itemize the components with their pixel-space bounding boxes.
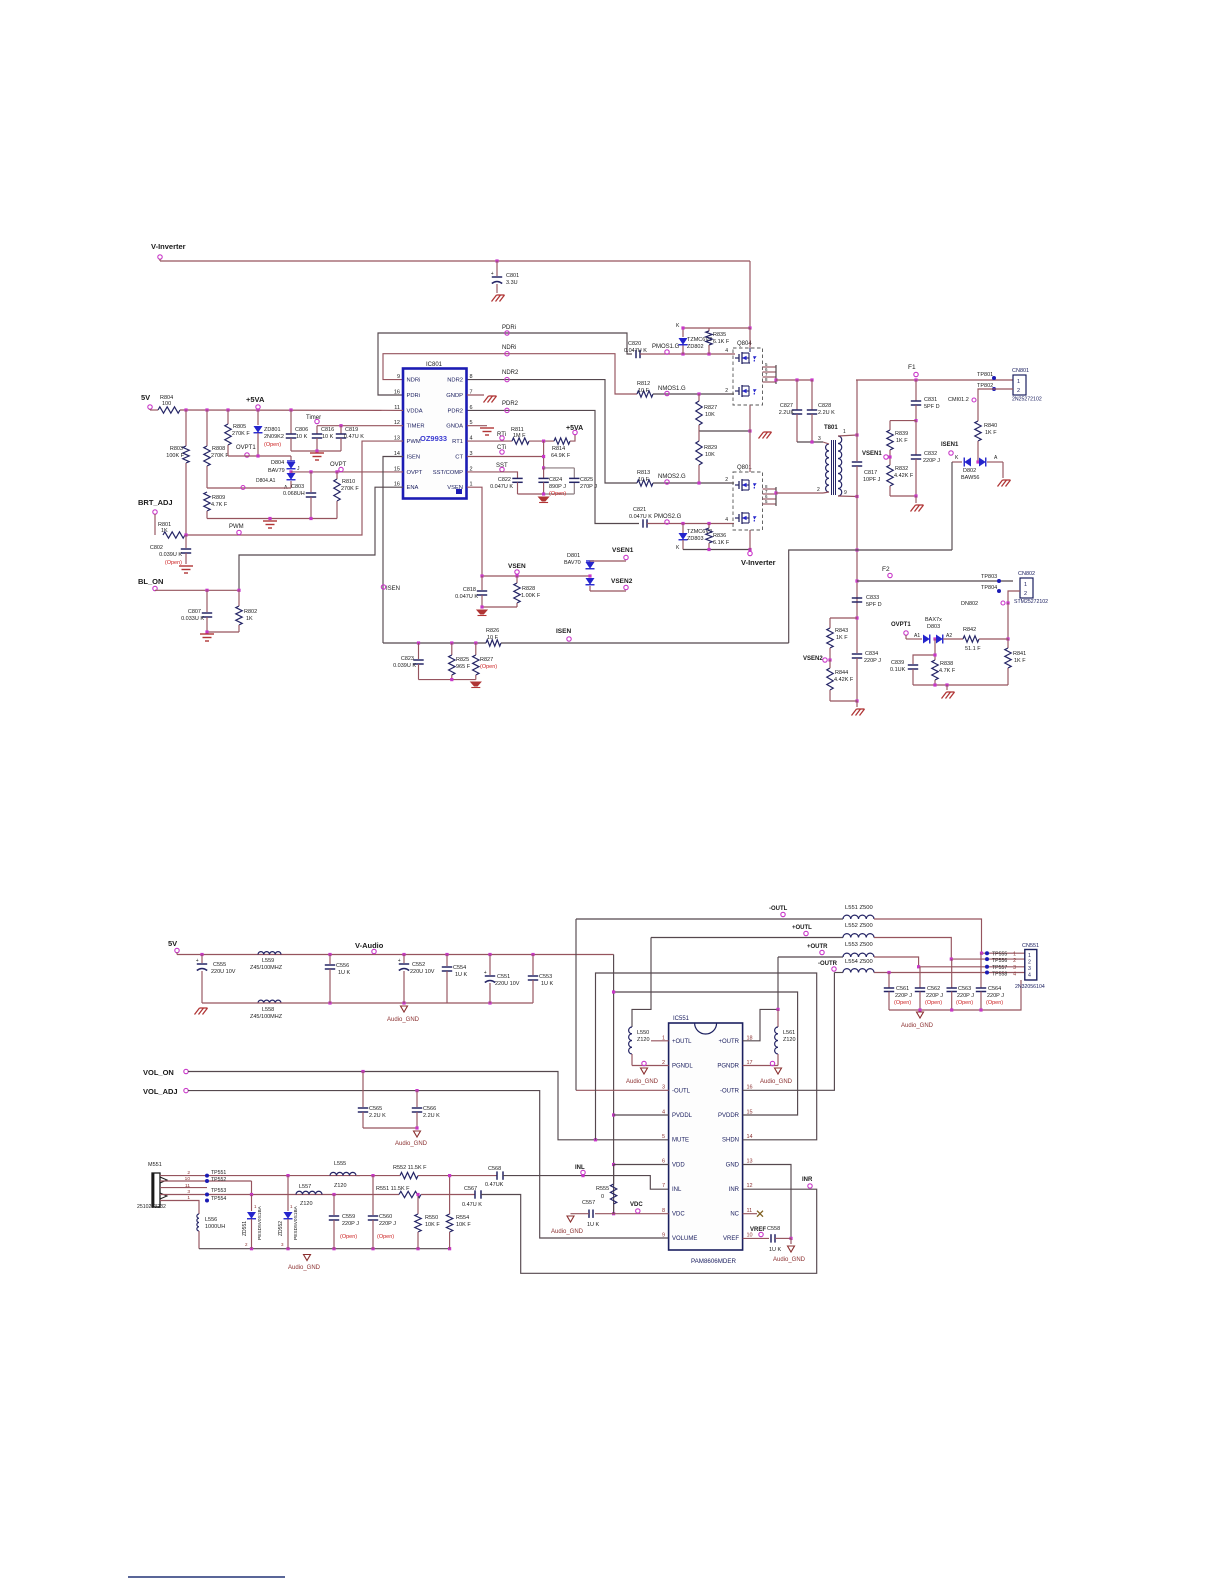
svg-text:L557: L557 [299,1184,311,1190]
svg-text:2: 2 [1017,388,1020,394]
capacitor C553 1U [532,955,534,976]
svg-text:NDR2: NDR2 [447,378,463,384]
svg-text:10 F: 10 F [638,388,650,394]
svg-text:1U K: 1U K [769,1247,782,1253]
capacitor C831 5PF [915,380,917,401]
resistor R554 10K [449,1176,451,1214]
wire PVDD vertical [613,955,615,1214]
svg-text:R838: R838 [940,661,953,667]
svg-text:6: 6 [662,1159,665,1165]
svg-text:VOLUME: VOLUME [672,1236,697,1242]
svg-text:4: 4 [725,517,728,523]
svg-text:R552 11.5K F: R552 11.5K F [393,1165,427,1171]
wire pin17 PGNDR + Audio_GND [743,1065,778,1067]
svg-text:TP556: TP556 [992,958,1007,964]
ground (C801) [492,295,505,302]
capacitor C819 [340,426,342,434]
svg-text:1K F: 1K F [985,430,997,436]
svg-text:OVPT: OVPT [330,462,347,468]
svg-text:Audio_GND: Audio_GND [773,1257,806,1263]
svg-text:R843: R843 [835,628,848,634]
wire CN801 pin2 [978,389,1013,400]
svg-text:D801: D801 [567,553,580,559]
wire caps gnd rail [889,980,1021,1010]
svg-text:PAM8606MDER: PAM8606MDER [691,1258,736,1265]
capacitor C816 [316,426,318,434]
svg-text:270P J: 270P J [580,484,597,490]
resistor R804 100 [158,407,180,413]
wire pin18 +OUTR [743,957,778,1041]
svg-text:10K: 10K [705,452,715,458]
svg-text:C552: C552 [412,962,425,968]
capacitor C560 220P (Open) [371,1174,374,1177]
wire V-Inverter down to MOSFET [749,261,751,328]
svg-text:2.2U K: 2.2U K [423,1113,440,1119]
inductor L559 [258,952,281,955]
wire pin2 PGNDL + Audio_GND [632,1065,669,1067]
svg-text:C568: C568 [488,1166,501,1172]
svg-text:10: 10 [747,1233,753,1239]
wire ZD802/R835 top [683,327,750,329]
wire Q804 source [749,405,751,431]
svg-text:10 F: 10 F [487,635,499,641]
svg-text:+5VA: +5VA [246,395,265,404]
svg-text:C819: C819 [345,427,358,433]
svg-text:2.2U K: 2.2U K [369,1113,386,1119]
svg-text:9: 9 [397,374,400,380]
wire TIMER row [317,425,403,427]
wire T801 primary return [776,492,823,494]
svg-text:SST/COMP: SST/COMP [433,470,463,476]
svg-text:VSEN1: VSEN1 [612,547,634,554]
svg-text:V-Inverter: V-Inverter [741,558,776,567]
svg-text:ENA: ENA [407,485,419,491]
wire V-Inverter rail [160,260,750,262]
svg-text:L552 Z500: L552 Z500 [845,923,873,929]
svg-text:220U 10V: 220U 10V [410,969,435,975]
svg-text:VDDA: VDDA [407,408,423,414]
svg-text:1K F: 1K F [836,635,848,641]
svg-text:10K: 10K [705,412,715,418]
svg-text:0: 0 [601,1194,604,1200]
svg-text:270K F: 270K F [341,486,359,492]
svg-text:2: 2 [187,1170,190,1176]
svg-text:ZD552: ZD552 [278,1221,284,1236]
resistor R836 6.1K [708,524,710,529]
svg-text:(Open): (Open) [165,560,182,566]
svg-text:5V: 5V [168,939,177,948]
svg-text:C822: C822 [498,477,511,483]
wire ENA net to BL_ON [239,487,403,590]
svg-text:NMOS2.G: NMOS2.G [658,474,686,480]
svg-text:1M F: 1M F [513,433,526,439]
svg-text:TP558: TP558 [992,972,1007,978]
capacitor C554 1U [446,955,448,967]
svg-text:R554: R554 [456,1215,469,1221]
diode D803 BAX [905,635,907,639]
svg-text:(Open): (Open) [480,664,497,670]
svg-text:VOL_ADJ: VOL_ADJ [143,1087,178,1096]
inductor L551 Z500 [843,915,874,919]
wire mid gnd line [699,430,750,432]
svg-text:L555: L555 [334,1161,346,1167]
svg-text:11: 11 [185,1183,190,1189]
svg-text:PDR2: PDR2 [448,408,463,414]
wire to T801 primary [797,441,823,443]
svg-text:Audio_GND: Audio_GND [387,1017,420,1023]
svg-text:220P J: 220P J [895,993,912,999]
svg-text:C824: C824 [549,477,562,483]
svg-text:OVPT1: OVPT1 [891,622,911,628]
svg-text:VSEN1: VSEN1 [862,451,882,457]
wire T801 secondary bottom [838,495,857,498]
zener ZD551 PESD5V0S1BA [250,1193,253,1196]
svg-text:PGNDR: PGNDR [717,1064,739,1070]
resistor R827 10K [698,394,700,401]
ground (BL_ON) [200,634,214,641]
svg-text:ZD803: ZD803 [687,536,704,542]
svg-text:R802: R802 [244,609,257,615]
resistor R810 270K [336,472,338,479]
resistor R808 270K [206,410,208,446]
svg-text:CT: CT [455,454,463,460]
wire pin3 -OUTL [576,1089,669,1091]
svg-text:0.068UH: 0.068UH [283,491,305,497]
wire -OUTR [834,972,843,974]
svg-text:NDRi: NDRi [502,345,516,351]
svg-text:0.47U K: 0.47U K [462,1202,482,1208]
svg-text:4: 4 [725,348,728,354]
svg-text:Audio_GND: Audio_GND [760,1079,793,1085]
ground (C802) [179,566,193,573]
svg-text:L554 Z500: L554 Z500 [845,959,873,965]
svg-text:R840: R840 [984,423,997,429]
Audio_GND (C552) [401,1006,408,1012]
inductor L556 1000UH [197,1214,199,1231]
capacitor C563 220P (Open) [951,959,953,988]
capacitor C567 0.47U [474,1190,476,1198]
svg-text:5: 5 [662,1134,665,1140]
svg-text:2: 2 [1024,591,1027,597]
svg-text:51.1 F: 51.1 F [965,646,981,652]
svg-text:C560: C560 [379,1214,392,1220]
svg-text:1: 1 [187,1195,190,1201]
svg-text:L553 Z500: L553 Z500 [845,942,873,948]
svg-text:PMOS1.G: PMOS1.G [652,344,680,350]
wire CN802 pin2 [1008,591,1020,603]
svg-text:220P J: 220P J [342,1221,359,1227]
resistor R842 [963,636,979,642]
wire OVPT1 gnd row [913,684,1008,686]
svg-text:270K F: 270K F [232,431,250,437]
svg-text:0.047U K: 0.047U K [490,484,513,490]
svg-text:2: 2 [1013,958,1016,964]
svg-text:BAV70: BAV70 [564,560,581,566]
svg-text:4: 4 [1028,973,1031,979]
wire DN802 vertical [1007,603,1009,639]
svg-text:VSEN: VSEN [447,485,463,491]
wire VSEN2 divider top [830,617,857,619]
svg-text:C807: C807 [188,609,201,615]
svg-text:5V: 5V [141,393,150,402]
svg-text:13: 13 [747,1159,753,1165]
svg-text:220U 10V: 220U 10V [495,981,520,987]
svg-text:4.7K F: 4.7K F [939,668,956,674]
svg-text:11: 11 [747,1208,753,1214]
ground (ISEN) [471,682,481,686]
svg-text:(Open): (Open) [377,1234,394,1240]
svg-text:4.42K F: 4.42K F [894,473,914,479]
wire pin14 SHDN to MUTE [596,973,817,1140]
svg-text:VSEN2: VSEN2 [611,578,633,585]
wire C824/C825 loop [544,467,575,469]
svg-text:GND: GND [726,1162,740,1168]
wire C565/C566 gnd [363,1127,417,1129]
wire PWM row [185,441,403,535]
svg-text:1: 1 [843,429,846,435]
svg-text:BAW56: BAW56 [961,475,979,481]
svg-text:R551 11.5K F: R551 11.5K F [376,1186,410,1192]
inductor L554 Z500 [843,969,874,973]
resistor R555 0 [610,1184,616,1204]
Audio_GND (input rail) [304,1255,311,1261]
wire +OUTL [651,937,843,939]
svg-text:R825: R825 [456,657,469,663]
svg-text:220P J: 220P J [987,993,1004,999]
svg-text:R805: R805 [233,424,246,430]
zener ZD803 [682,524,684,534]
ground GNDA [467,425,487,427]
svg-text:DN802: DN802 [961,601,978,607]
svg-text:1000UH: 1000UH [205,1224,225,1230]
wire VOL_ON to MUTE [188,1072,669,1140]
svg-text:2: 2 [817,487,820,493]
svg-text:C833: C833 [866,595,879,601]
svg-text:1K: 1K [246,616,253,622]
capacitor C821 0.047U K [642,519,644,527]
svg-text:2N09K2: 2N09K2 [264,434,284,440]
svg-text:14: 14 [747,1134,753,1140]
svg-text:16: 16 [747,1085,753,1091]
wire VSEN1 divider top [890,420,916,422]
svg-text:C834: C834 [865,651,878,657]
svg-text:9: 9 [844,490,847,496]
svg-text:R844: R844 [835,670,848,676]
svg-text:C566: C566 [423,1106,436,1112]
node TP558 [985,971,989,975]
svg-text:RTi: RTi [497,432,506,438]
svg-text:OVPT1: OVPT1 [236,445,256,451]
svg-text:C823: C823 [401,656,414,662]
inductor L557 Z120 [296,1191,322,1194]
svg-text:16: 16 [394,389,400,395]
resistor R827 (Open) [475,643,477,655]
svg-text:3: 3 [187,1189,190,1195]
svg-text:CN801: CN801 [1012,368,1029,374]
svg-text:(Open): (Open) [549,491,566,497]
inductor L558 [258,1000,281,1003]
svg-text:Z45/100MHZ: Z45/100MHZ [250,965,283,971]
svg-text:10PF J: 10PF J [863,477,881,483]
inductor L553 Z500 [843,953,874,957]
wire ISEN bus [383,642,486,644]
svg-text:C825: C825 [580,477,593,483]
resistor R809 4.7K [204,492,210,511]
wire OVPT1 row [228,455,291,457]
wire NDR2 bus [467,380,637,483]
svg-text:R842: R842 [963,627,976,633]
svg-text:CN802: CN802 [1018,571,1035,577]
resistor R814 64.9K [554,438,570,444]
wire row2 to INR loop [481,1189,817,1273]
ground (C824) [539,497,549,501]
svg-text:C828: C828 [818,403,831,409]
svg-text:PDRi: PDRi [407,393,421,399]
svg-text:R814: R814 [552,446,565,452]
svg-text:0.039U K: 0.039U K [159,552,182,558]
svg-text:R832: R832 [895,466,908,472]
ground (timer caps) [310,453,324,460]
wire 5V rail to VDDA [180,409,403,411]
svg-text:C551: C551 [497,974,510,980]
svg-text:2.2UK: 2.2UK [779,410,795,416]
svg-text:10K F: 10K F [456,1222,471,1228]
zener ZD552 PESD5V0S1BA [286,1174,289,1177]
resistor R828 1.00K [516,576,518,583]
capacitor C558 1U + VREF [743,1237,769,1239]
svg-text:64.9K F: 64.9K F [551,453,571,459]
wire BL_ON gnd row [207,631,239,633]
svg-text:C558: C558 [767,1226,780,1232]
svg-text:R809: R809 [212,495,225,501]
capacitor C818 0.047U [481,576,483,590]
capacitor C552 220U [403,955,405,964]
wire page footer line [128,1576,285,1578]
svg-text:Audio_GND: Audio_GND [901,1023,934,1029]
svg-text:PDR2: PDR2 [502,401,519,407]
diode D804 BAV79 [290,456,292,461]
svg-text:Audio_GND: Audio_GND [395,1141,428,1147]
svg-text:2N25272102: 2N25272102 [1012,397,1042,403]
zener ZD801 (Open) [257,410,259,425]
capacitor C568 0.47U [496,1171,498,1179]
capacitor C556 1U [329,955,331,965]
svg-text:D804.A1: D804.A1 [256,478,276,484]
capacitor C565 2.2U [362,1072,364,1108]
svg-text:C821: C821 [633,507,646,513]
svg-text:+OUTL: +OUTL [792,925,812,931]
svg-text:VDD: VDD [672,1162,685,1168]
svg-text:1U K: 1U K [587,1222,600,1228]
svg-text:R841: R841 [1013,651,1026,657]
svg-text:(Open): (Open) [264,442,281,448]
svg-text:-OUTL: -OUTL [672,1088,691,1094]
svg-text:C816: C816 [321,427,334,433]
svg-text:VDC: VDC [630,1202,643,1208]
svg-text:CN551: CN551 [1022,943,1039,949]
svg-text:TP552: TP552 [211,1177,226,1183]
resistor R552 11.5K [400,1172,418,1178]
svg-text:M551: M551 [148,1162,162,1168]
svg-text:270K F: 270K F [211,453,229,459]
resistor R835 6.1K [708,328,710,331]
svg-text:R835: R835 [713,332,726,338]
svg-text:L561: L561 [783,1030,795,1036]
op-amp IC551 PAM8606MDER [669,1023,743,1250]
svg-text:BAX7x: BAX7x [925,617,942,623]
svg-text:D802: D802 [963,468,976,474]
wire Q804 drain pins [763,366,777,368]
wire pin11 NC [743,1213,757,1215]
resistor R843 1K [829,618,831,628]
node TP556 [985,957,989,961]
wire NMOS2.G [653,482,734,484]
svg-text:C553: C553 [539,974,552,980]
svg-text:220P J: 220P J [923,458,940,464]
svg-text:8: 8 [662,1208,665,1214]
svg-text:890P J: 890P J [549,484,566,490]
svg-text:220P J: 220P J [926,993,943,999]
svg-text:2.2U K: 2.2U K [818,410,835,416]
svg-text:F1: F1 [908,364,916,371]
svg-text:ISEN: ISEN [407,454,421,460]
svg-text:GNDP: GNDP [446,393,463,399]
svg-text:VREF: VREF [723,1236,739,1242]
node VSEN1 (D801) [590,560,626,562]
svg-text:3: 3 [1013,965,1016,971]
svg-text:C561: C561 [896,986,909,992]
inductor L555 Z120 [330,1172,356,1175]
capacitor C564 220P (Open) [980,953,982,988]
svg-text:100: 100 [162,401,171,407]
svg-text:15: 15 [747,1109,753,1115]
svg-text:MUTE: MUTE [672,1138,689,1144]
capacitor C551 220U [489,955,491,976]
svg-text:+OUTL: +OUTL [672,1039,692,1045]
wire CT row [467,456,544,458]
svg-text:R808: R808 [212,446,225,452]
svg-text:INR: INR [729,1187,740,1193]
svg-text:Z120: Z120 [300,1201,313,1207]
wire T801 secondary top [838,435,857,436]
svg-text:R555: R555 [596,1186,609,1192]
svg-text:R828: R828 [522,586,535,592]
wire pin4 PVDDL [614,1114,669,1116]
capacitor C828 2.2U [811,380,813,410]
capacitor C561 220P (Open) [888,973,890,989]
ground (OVPT1) [942,692,955,699]
wire pin13 GND [743,1165,791,1239]
svg-text:-OUTL: -OUTL [769,906,788,912]
svg-text:R839: R839 [895,431,908,437]
svg-text:-OUTR: -OUTR [720,1088,740,1094]
svg-text:1K F: 1K F [1014,658,1026,664]
svg-text:C832: C832 [924,451,937,457]
capacitor C827 2.2U [796,380,798,410]
svg-text:5PF D: 5PF D [924,404,940,410]
svg-text:NDR2: NDR2 [502,370,519,376]
svg-text:(Open): (Open) [894,1000,911,1006]
svg-text:L559: L559 [262,958,274,964]
svg-text:ISEN: ISEN [386,586,400,592]
svg-text:0.047U K: 0.047U K [629,514,652,520]
inductor L550 Z120 [632,938,651,1028]
svg-text:+: + [491,271,494,277]
capacitor C555 220U [201,955,203,964]
resistor R813 10 [637,480,653,486]
svg-text:+OUTR: +OUTR [807,944,828,950]
svg-text:C554: C554 [453,965,466,971]
